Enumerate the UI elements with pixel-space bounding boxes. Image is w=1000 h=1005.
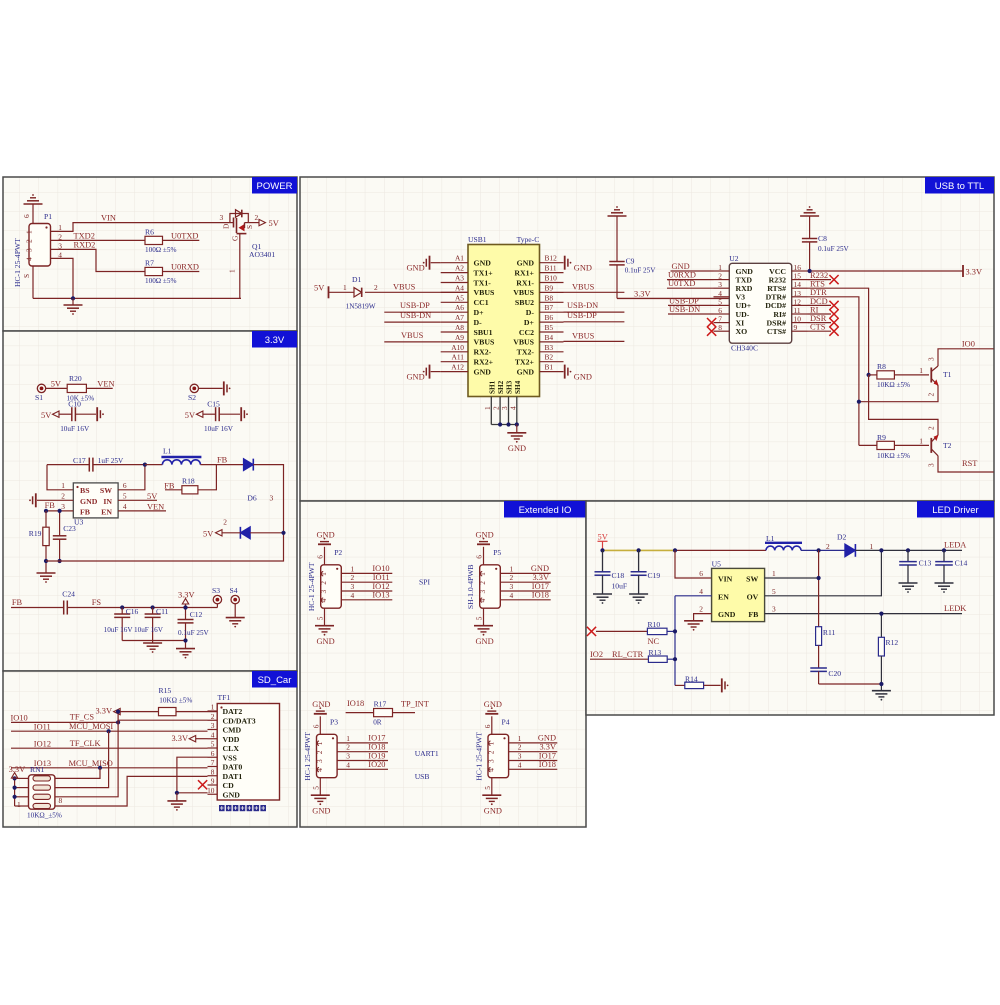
svg-text:A4: A4 — [455, 283, 464, 292]
capacitor C15 — [203, 413, 216, 415]
svg-text:CC2: CC2 — [519, 328, 534, 337]
svg-text:C15: C15 — [207, 400, 220, 409]
wire USB-DN — [668, 313, 714, 315]
svg-text:R11: R11 — [823, 628, 836, 637]
svg-text:3: 3 — [518, 752, 522, 761]
svg-text:1: 1 — [319, 572, 328, 576]
svg-text:0.1uF 25V: 0.1uF 25V — [818, 245, 850, 253]
svg-text:5: 5 — [311, 786, 320, 790]
USB to TTL block frame — [300, 177, 994, 501]
svg-text:B10: B10 — [545, 274, 558, 283]
svg-text:3.3V: 3.3V — [265, 335, 285, 346]
svg-text:2: 2 — [518, 743, 522, 752]
resistor R13 — [648, 656, 667, 662]
ground bar B1 — [564, 365, 566, 379]
pin 2 wire — [337, 751, 388, 753]
svg-text:B2: B2 — [545, 353, 554, 362]
wire USB-DN A7 — [384, 321, 440, 323]
resistor R17 — [374, 709, 393, 717]
svg-text:IO18: IO18 — [532, 591, 549, 600]
svg-text:SBU2: SBU2 — [515, 298, 534, 307]
svg-text:MCU_MOSI: MCU_MOSI — [69, 722, 113, 731]
svg-text:B1: B1 — [545, 363, 554, 372]
svg-text:U2: U2 — [729, 254, 738, 263]
no connect R10 — [587, 627, 596, 636]
svg-text:2: 2 — [926, 426, 935, 430]
svg-text:B8: B8 — [545, 293, 554, 302]
svg-text:T2: T2 — [943, 441, 952, 450]
svg-text:2: 2 — [319, 581, 328, 585]
svg-text:R14: R14 — [685, 675, 698, 684]
svg-text:5V: 5V — [598, 533, 608, 542]
wire MISO — [11, 767, 208, 769]
svg-text:C17: C17 — [73, 456, 86, 465]
svg-text:4: 4 — [211, 730, 215, 739]
svg-text:VBUS: VBUS — [513, 288, 534, 297]
wire 5V — [46, 387, 67, 389]
svg-text:5V: 5V — [185, 411, 195, 420]
svg-text:3.3V: 3.3V — [95, 707, 112, 716]
svg-text:GND: GND — [474, 259, 492, 268]
pin 2 wire — [500, 581, 550, 583]
wire highlighted — [603, 549, 676, 551]
ground bar — [240, 407, 242, 421]
svg-text:U0TXD: U0TXD — [668, 279, 695, 288]
junction — [107, 729, 111, 733]
wire — [346, 712, 374, 714]
transistor Q1 — [230, 214, 248, 223]
svg-text:SPI: SPI — [419, 578, 430, 587]
pin 3 FB / LEDK wire — [765, 613, 962, 615]
svg-text:1: 1 — [25, 230, 34, 234]
wire USB-DP A6 — [384, 311, 440, 313]
svg-text:FS: FS — [92, 598, 102, 607]
pin 1 wire — [341, 572, 392, 574]
svg-text:A10: A10 — [451, 343, 464, 352]
svg-text:B12: B12 — [545, 254, 558, 263]
svg-text:4: 4 — [518, 760, 522, 769]
svg-text:C9: C9 — [626, 257, 635, 266]
3.3V block frame — [3, 331, 297, 671]
svg-text:U5: U5 — [712, 560, 721, 569]
svg-text:LED Driver: LED Driver — [932, 505, 978, 516]
svg-text:R17: R17 — [374, 699, 387, 708]
wire 3.3V rail — [122, 607, 217, 609]
svg-text:A8: A8 — [455, 323, 464, 332]
svg-text:2: 2 — [211, 712, 215, 721]
svg-text:L1: L1 — [163, 447, 172, 456]
svg-text:C20: C20 — [828, 669, 841, 678]
svg-text:VBUS: VBUS — [572, 331, 595, 340]
svg-text:S1: S1 — [35, 393, 43, 402]
wire DAT1 — [55, 776, 208, 806]
resistor R10 — [647, 628, 667, 634]
svg-text:10uF 16V: 10uF 16V — [134, 626, 164, 634]
svg-text:TF1: TF1 — [218, 693, 231, 702]
svg-text:1: 1 — [61, 481, 65, 490]
svg-text:C19: C19 — [648, 571, 661, 580]
svg-text:IO13: IO13 — [372, 591, 389, 600]
resistor R20 — [67, 384, 86, 392]
wire — [675, 549, 766, 551]
svg-text:3: 3 — [487, 759, 496, 763]
svg-text:VBUS: VBUS — [393, 283, 416, 292]
pin 3 wire — [341, 590, 392, 592]
capacitor C12 — [183, 605, 187, 609]
pin 5 OV wire — [765, 550, 882, 595]
svg-text:3.3V: 3.3V — [966, 268, 983, 277]
svg-text:S: S — [22, 274, 31, 278]
svg-text:IO17: IO17 — [539, 751, 556, 760]
svg-text:D-: D- — [474, 318, 483, 327]
svg-text:BS: BS — [80, 486, 90, 495]
wire VIN — [51, 223, 230, 232]
svg-text:C16: C16 — [126, 607, 139, 616]
svg-text:2: 2 — [61, 492, 65, 501]
wire DTR — [808, 297, 859, 446]
svg-text:VDD: VDD — [223, 735, 240, 744]
svg-text:GND: GND — [312, 807, 330, 816]
wire TF_CS — [11, 721, 118, 723]
diode D1 — [354, 288, 362, 297]
pin 2 wire — [341, 581, 392, 583]
pin 2 ground — [694, 614, 712, 621]
svg-text:GND: GND — [223, 790, 241, 799]
wire SW node — [818, 550, 820, 626]
svg-text:NC: NC — [648, 637, 660, 646]
svg-text:4: 4 — [319, 598, 328, 602]
wire TP_INT — [393, 712, 416, 714]
svg-text:GND: GND — [538, 734, 556, 743]
svg-text:G: G — [231, 235, 240, 241]
svg-text:IO19: IO19 — [368, 751, 385, 760]
svg-text:VBUS: VBUS — [572, 283, 595, 292]
svg-text:0.1uF 25V: 0.1uF 25V — [178, 629, 210, 637]
svg-text:9: 9 — [211, 777, 215, 786]
svg-text:P5: P5 — [493, 548, 501, 557]
ground bar — [96, 407, 98, 421]
svg-text:A3: A3 — [455, 274, 464, 283]
svg-text:3: 3 — [319, 590, 328, 594]
wire — [122, 640, 185, 642]
svg-text:D: D — [222, 223, 231, 229]
diode D6 pin2 — [240, 527, 250, 539]
svg-text:1: 1 — [487, 741, 496, 745]
svg-text:6: 6 — [211, 749, 215, 758]
svg-text:A7: A7 — [455, 313, 464, 322]
resistor network RN1 — [29, 775, 55, 809]
svg-text:100Ω ±5%: 100Ω ±5% — [145, 246, 176, 254]
svg-text:2: 2 — [926, 393, 935, 397]
svg-text:A5: A5 — [455, 293, 464, 302]
svg-text:IO17: IO17 — [532, 582, 549, 591]
svg-text:GND: GND — [80, 497, 98, 506]
svg-text:3: 3 — [25, 248, 34, 252]
inductor L1 — [765, 542, 802, 544]
wire — [590, 658, 648, 660]
capacitor C9 — [609, 261, 624, 263]
resistor R12 — [878, 637, 884, 656]
svg-text:3.3V: 3.3V — [539, 743, 556, 752]
svg-text:SH-1.0-4PWB: SH-1.0-4PWB — [466, 565, 475, 610]
ground — [37, 572, 56, 574]
svg-text:3.3V: 3.3V — [634, 289, 651, 298]
svg-text:GND: GND — [407, 264, 425, 273]
diode D2 — [845, 544, 856, 557]
svg-text:4: 4 — [508, 406, 517, 410]
svg-text:1: 1 — [518, 734, 522, 743]
svg-text:5V: 5V — [51, 380, 61, 389]
svg-text:D+: D+ — [474, 308, 485, 317]
resistor R19 — [45, 511, 47, 527]
svg-text:CH340C: CH340C — [731, 344, 758, 353]
connector P3 — [317, 734, 338, 777]
wire — [667, 658, 675, 660]
testpoint S1 — [37, 384, 45, 392]
svg-text:FB: FB — [12, 598, 23, 607]
ground — [143, 642, 162, 644]
resistor R8 — [877, 371, 895, 379]
svg-text:SH3: SH3 — [506, 380, 514, 394]
svg-text:3: 3 — [478, 590, 487, 594]
svg-text:3: 3 — [315, 759, 324, 763]
svg-text:A6: A6 — [455, 303, 464, 312]
svg-text:RST: RST — [962, 459, 977, 468]
svg-text:U0RXD: U0RXD — [171, 263, 199, 272]
wire U0TXD — [667, 287, 714, 289]
svg-text:2: 2 — [478, 581, 487, 585]
wire 3.3V rail — [14, 778, 16, 806]
svg-text:2: 2 — [223, 517, 227, 526]
svg-text:B4: B4 — [545, 333, 554, 342]
wire — [250, 532, 283, 534]
wire — [47, 465, 73, 490]
svg-text:GND: GND — [312, 700, 330, 709]
resistor R11 — [816, 627, 822, 646]
svg-text:EN: EN — [718, 592, 729, 601]
svg-text:C10: C10 — [68, 400, 81, 409]
svg-text:B6: B6 — [545, 313, 554, 322]
transistor T1 — [930, 368, 932, 383]
svg-text:SH4: SH4 — [514, 380, 522, 394]
junction — [71, 296, 75, 300]
wire R12 — [880, 614, 882, 638]
svg-text:1: 1 — [346, 734, 350, 743]
svg-text:RN1: RN1 — [30, 765, 45, 774]
connector P5 — [480, 565, 501, 608]
svg-text:IO11: IO11 — [373, 573, 390, 582]
svg-text:VBUS: VBUS — [474, 338, 495, 347]
svg-text:7: 7 — [211, 758, 215, 767]
pin 1 SW wire — [765, 577, 819, 579]
svg-text:5V: 5V — [147, 492, 157, 501]
svg-text:5: 5 — [475, 616, 484, 620]
wire 3.3V to U2 — [617, 297, 729, 299]
svg-text:8: 8 — [211, 767, 215, 776]
svg-text:D6: D6 — [247, 494, 256, 503]
svg-text:SD_Car: SD_Car — [258, 675, 292, 686]
wire collector IO0 — [938, 349, 994, 366]
wire — [37, 499, 73, 501]
svg-text:IO10: IO10 — [11, 713, 28, 722]
svg-text:TX1-: TX1- — [474, 278, 492, 287]
capacitor C14 — [943, 550, 945, 561]
testpoint S4 — [231, 595, 239, 603]
svg-text:SH1: SH1 — [488, 380, 496, 394]
svg-text:5V: 5V — [41, 411, 51, 420]
svg-text:CD/DAT3: CD/DAT3 — [223, 716, 256, 725]
svg-text:A11: A11 — [452, 353, 465, 362]
wire RTS — [808, 288, 869, 375]
capacitor C11 — [151, 605, 155, 609]
wire EN — [675, 595, 712, 597]
no connect — [829, 301, 838, 310]
ground — [176, 648, 195, 650]
pin 4 wire — [341, 599, 392, 601]
wire — [200, 464, 243, 466]
wire CMD — [11, 730, 208, 732]
junction — [44, 559, 48, 563]
svg-text:HC-1 25-4PWT: HC-1 25-4PWT — [13, 238, 22, 287]
svg-text:1: 1 — [919, 366, 923, 375]
svg-text:1: 1 — [478, 572, 487, 576]
svg-text:3: 3 — [346, 752, 350, 761]
capacitor C18 — [602, 550, 604, 571]
ground — [24, 203, 43, 205]
capacitor C19 — [638, 550, 640, 571]
svg-text:IO12: IO12 — [34, 739, 51, 748]
svg-text:2: 2 — [25, 239, 34, 243]
svg-text:USB to TTL: USB to TTL — [935, 181, 984, 192]
capacitor C17 — [47, 464, 89, 466]
svg-text:5V: 5V — [269, 219, 279, 228]
svg-text:1: 1 — [315, 741, 324, 745]
wire VEN — [118, 510, 166, 512]
svg-text:IO10: IO10 — [372, 564, 389, 573]
svg-text:4: 4 — [346, 760, 350, 769]
svg-text:IO20: IO20 — [368, 760, 385, 769]
svg-text:USB-DP: USB-DP — [567, 311, 597, 320]
svg-text:CTS: CTS — [810, 323, 826, 332]
svg-text:VEN: VEN — [147, 503, 164, 512]
wire — [596, 630, 647, 632]
svg-text:C23: C23 — [63, 524, 76, 533]
svg-text:R18: R18 — [182, 477, 195, 486]
svg-text:GND: GND — [574, 372, 592, 381]
svg-text:R6: R6 — [145, 228, 154, 237]
svg-text:USB: USB — [415, 772, 430, 781]
svg-text:10KΩ_±5%: 10KΩ_±5% — [27, 812, 62, 820]
svg-text:6: 6 — [123, 481, 127, 490]
svg-text:R20: R20 — [69, 374, 82, 383]
svg-text:P2: P2 — [334, 548, 342, 557]
wire USB-DP — [668, 304, 714, 306]
svg-text:2: 2 — [346, 743, 350, 752]
svg-text:SBU1: SBU1 — [474, 328, 493, 337]
wire — [667, 630, 675, 632]
svg-text:FB: FB — [217, 456, 228, 465]
wire — [234, 604, 236, 618]
capacitor C13 — [907, 550, 909, 561]
svg-text:R7: R7 — [145, 259, 154, 268]
svg-text:RX2-: RX2- — [474, 348, 492, 357]
POWER block frame — [3, 177, 297, 331]
svg-text:S4: S4 — [230, 586, 238, 595]
svg-text:4: 4 — [510, 591, 514, 600]
wire VBUS B9 — [564, 291, 625, 293]
svg-text:USB1: USB1 — [468, 235, 487, 244]
capacitor C20 — [818, 645, 820, 668]
svg-text:3: 3 — [510, 582, 514, 591]
svg-text:3.3V: 3.3V — [178, 591, 195, 600]
wire — [859, 444, 877, 446]
pin 3 wire — [509, 760, 558, 762]
wire — [198, 465, 217, 490]
svg-text:4: 4 — [25, 257, 34, 261]
inductor L1 — [145, 464, 163, 466]
wire R14 — [675, 684, 685, 686]
TF1 socket label — [219, 805, 225, 811]
connector P4 — [488, 734, 509, 777]
svg-text:U0TXD: U0TXD — [171, 232, 198, 241]
wire — [46, 510, 73, 512]
svg-text:B11: B11 — [545, 264, 557, 273]
svg-text:GND: GND — [508, 444, 526, 453]
Extended IO block frame — [300, 501, 586, 827]
connector USB1 Type-C — [468, 245, 540, 397]
wire pullup1 — [55, 768, 100, 779]
no connect CD — [198, 780, 207, 789]
svg-text:SW: SW — [746, 575, 758, 584]
svg-text:3.3V: 3.3V — [171, 734, 188, 743]
connector P1 — [29, 224, 51, 267]
svg-text:1uF 25V: 1uF 25V — [98, 457, 124, 465]
svg-text:3: 3 — [926, 463, 935, 467]
wire pullup3 — [55, 712, 118, 797]
wire VIN — [675, 550, 712, 578]
svg-text:3: 3 — [270, 494, 274, 503]
svg-text:P4: P4 — [502, 717, 510, 726]
svg-text:C18: C18 — [612, 571, 625, 580]
svg-text:8: 8 — [59, 796, 63, 805]
svg-text:TX2-: TX2- — [517, 348, 535, 357]
svg-text:CLX: CLX — [223, 744, 240, 753]
svg-text:4: 4 — [315, 768, 324, 772]
testpoint S3 — [216, 604, 218, 608]
svg-text:VBUS: VBUS — [474, 288, 495, 297]
svg-text:2: 2 — [255, 213, 259, 222]
svg-text:10KΩ ±5%: 10KΩ ±5% — [877, 381, 910, 389]
pin 4 wire — [500, 599, 550, 601]
svg-text:RX1+: RX1+ — [514, 268, 534, 277]
capacitor C10 — [59, 413, 72, 415]
wire gate — [239, 234, 241, 299]
svg-text:1: 1 — [58, 223, 62, 232]
svg-text:4: 4 — [699, 587, 703, 596]
svg-text:6: 6 — [475, 555, 484, 559]
wire — [329, 291, 355, 293]
svg-text:IO0: IO0 — [962, 340, 975, 349]
svg-text:6: 6 — [22, 214, 31, 218]
svg-text:C14: C14 — [955, 559, 968, 568]
wire — [32, 266, 34, 298]
pin 3 wire — [500, 590, 550, 592]
svg-text:10KΩ ±5%: 10KΩ ±5% — [877, 452, 910, 460]
svg-text:D1: D1 — [352, 275, 361, 284]
wire LEDA — [855, 549, 962, 551]
svg-text:VIN: VIN — [101, 214, 116, 223]
svg-text:GND: GND — [517, 367, 535, 376]
